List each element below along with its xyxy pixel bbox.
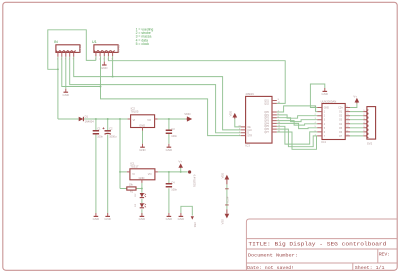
- SV2 pin stubs: [363, 112, 367, 136]
- pin numbers U1: [95, 59, 114, 61]
- label C1 value: [97, 135, 103, 139]
- svg-text:100n: 100n: [97, 135, 103, 139]
- wire lattice QP4 to I5: [277, 123, 317, 128]
- svg-text:100n: 100n: [171, 187, 177, 191]
- wire IC4 GND route: [310, 84, 324, 108]
- wire ICSP supply link: [226, 184, 228, 209]
- wire lattice QP7 under dip: [277, 132, 317, 149]
- label IC3: [245, 144, 250, 148]
- svg-text:C3: C3: [171, 127, 175, 131]
- junction C4 tap: [168, 171, 170, 173]
- ground IN pin3: [63, 89, 69, 97]
- wire C2 branch: [107, 119, 109, 213]
- junction C3 tap: [168, 118, 170, 120]
- svg-text:GND: GND: [324, 108, 329, 110]
- capacitor C2 polarized: [103, 127, 111, 134]
- svg-text:QP7: QP7: [264, 132, 269, 134]
- junction IC1 VI tap: [119, 171, 121, 173]
- wire IC2 GND pin to ground: [142, 131, 144, 144]
- regulator IC2: [128, 115, 158, 131]
- wire data-out net U1 pin4 to IC3 QS2: [108, 56, 285, 103]
- svg-text:VDD: VDD: [184, 112, 191, 116]
- svg-text:4094N: 4094N: [245, 92, 253, 96]
- pad 6.4V: [188, 170, 191, 173]
- svg-text:VDD: VDD: [220, 173, 224, 179]
- ground U1 pin3: [101, 62, 107, 70]
- capacitor C1: [93, 131, 99, 134]
- label IC1 value: [130, 165, 139, 169]
- junction strobe: [100, 86, 102, 88]
- wire IN pin3 to ground: [65, 57, 67, 89]
- label R1 value: [129, 183, 134, 186]
- svg-text:IN: IN: [54, 40, 58, 44]
- svg-text:QS2: QS2: [264, 103, 269, 105]
- svg-text:1N4004: 1N4004: [85, 119, 95, 123]
- wire data net: [70, 57, 241, 133]
- wire lattice QP5 to I6: [277, 126, 317, 144]
- label C1: [97, 127, 101, 131]
- connector SV2: [367, 107, 376, 140]
- supply VSS arrow tie: [191, 216, 194, 219]
- supply VDD arrow ICSP: [225, 176, 228, 185]
- IC4 pin names: [324, 108, 344, 138]
- ground IC2: [139, 144, 145, 152]
- svg-text:VI: VI: [132, 172, 135, 176]
- wire lattice QP2 to I3: [277, 118, 317, 122]
- svg-text:QP2: QP2: [264, 118, 269, 120]
- label IC3 part: [245, 92, 253, 96]
- svg-text:5 = clock: 5 = clock: [136, 42, 150, 46]
- sheet label: [355, 265, 385, 271]
- wire clock net: [74, 56, 241, 130]
- label D1: [85, 114, 89, 118]
- svg-text:Date: not saved!: Date: not saved!: [247, 265, 294, 271]
- junction clock U1 pin5: [112, 76, 114, 78]
- junction IC1 feed tap: [119, 118, 121, 120]
- wire voeding rail to diode and IC2: [58, 118, 128, 120]
- svg-text:QP6: QP6: [264, 129, 269, 131]
- LED D3: [140, 203, 146, 208]
- svg-text:QP5: QP5: [264, 126, 269, 128]
- svg-text:VO: VO: [148, 172, 152, 176]
- wire C1 branch: [95, 119, 97, 213]
- svg-text:TS317: TS317: [130, 165, 139, 169]
- svg-text:CD+: CD+: [338, 108, 343, 110]
- svg-text:VSS: VSS: [193, 222, 197, 227]
- wire VDD rail from IC2 VO: [158, 118, 186, 120]
- svg-text:REV:: REV:: [379, 252, 391, 258]
- svg-text:C2: C2: [109, 127, 113, 131]
- label VDD OE: [228, 111, 232, 117]
- label VSS tie: [193, 222, 197, 227]
- LED D2: [140, 193, 146, 198]
- wire GND to VSS tie: [181, 206, 192, 215]
- label 6.4V(LED): [192, 175, 196, 187]
- svg-text:D1: D1: [85, 114, 89, 118]
- svg-text:MTA05: MTA05: [117, 44, 120, 52]
- title text: [248, 240, 386, 247]
- label R1: [130, 191, 134, 194]
- ground C2: [104, 213, 110, 221]
- label IN type: [79, 44, 82, 52]
- svg-text:QP1: QP1: [264, 115, 269, 117]
- ground C3: [166, 144, 172, 152]
- svg-text:IC4: IC4: [321, 140, 326, 144]
- label C2: [109, 127, 113, 131]
- svg-text:VI: VI: [133, 118, 136, 122]
- svg-text:1000u: 1000u: [109, 135, 117, 139]
- svg-text:VDD: VDD: [228, 111, 232, 117]
- svg-text:ICSP: ICSP: [225, 196, 229, 202]
- pin ICSP marks: [225, 189, 229, 205]
- label VDD: [184, 112, 191, 116]
- supply V+ arrow at IC1: [179, 164, 182, 168]
- wire IC4 outputs to SV2: [350, 112, 363, 136]
- wire lattice QP6 to I7: [277, 129, 317, 147]
- wire R1 to ADJ junction: [136, 188, 142, 190]
- vdd arrow IC2 output: [186, 117, 192, 121]
- junction C2 tap: [107, 118, 109, 120]
- svg-text:78L05: 78L05: [131, 110, 139, 114]
- label C4 value: [171, 187, 177, 191]
- diode D1: [79, 117, 84, 121]
- svg-text:GND: GND: [139, 176, 145, 180]
- capacitor C4: [166, 184, 172, 187]
- note text pin legend: [136, 27, 154, 46]
- svg-text:GND: GND: [139, 124, 145, 128]
- label V+ SV2: [353, 94, 357, 98]
- wire IC4 COM to V+: [350, 103, 357, 107]
- label VDD ICSP: [220, 173, 224, 179]
- ground IC4: [322, 88, 328, 96]
- junction ADJ R1: [141, 188, 143, 190]
- wire IC1 VO rail: [158, 171, 188, 173]
- wire voeding net: IN pin1 to U1 pin1 loop: [48, 30, 96, 119]
- svg-text:IC3: IC3: [245, 144, 250, 148]
- svg-text:VO: VO: [147, 118, 151, 122]
- label IC2: [131, 106, 136, 110]
- label IN: [54, 40, 58, 44]
- date label: [247, 265, 294, 271]
- driver IC4: [317, 104, 350, 140]
- svg-text:6.4V(LED): 6.4V(LED): [192, 175, 196, 187]
- ground C4: [166, 213, 172, 221]
- supply V+ arrow SV2: [355, 99, 358, 104]
- wire U1 pin3 to ground: [103, 56, 105, 61]
- label IC4 part: [321, 99, 337, 103]
- label C3 value: [171, 134, 177, 138]
- connector IN: [56, 45, 80, 57]
- connector U1: [94, 45, 118, 57]
- IC3 pin names: [247, 100, 269, 137]
- svg-text:C4: C4: [171, 181, 175, 185]
- label D2: [135, 193, 137, 197]
- label C3: [171, 127, 175, 131]
- junction V+ tap: [180, 171, 182, 173]
- label C4: [171, 181, 175, 185]
- label D1 value: [85, 119, 95, 123]
- capacitor C3: [166, 130, 172, 133]
- label V+: [178, 160, 182, 164]
- svg-text:Document Number:: Document Number:: [248, 253, 298, 259]
- label IC4: [321, 140, 326, 144]
- IC3 pin numbers: [238, 99, 280, 136]
- label C2 value: [109, 135, 117, 139]
- wire lattice QP0 to I1: [277, 106, 317, 112]
- svg-text:SV2: SV2: [367, 141, 373, 145]
- svg-text:QP4: QP4: [264, 123, 269, 125]
- ground C1: [93, 213, 99, 221]
- vdd arrow IC3 OE: [233, 114, 236, 119]
- svg-text:100n: 100n: [171, 134, 177, 138]
- svg-text:U1: U1: [92, 40, 97, 44]
- shift register IC3: [241, 96, 277, 143]
- svg-text:OE: OE: [247, 127, 251, 129]
- svg-text:C1: C1: [97, 127, 101, 131]
- wire lattice QP1 to I2: [277, 115, 317, 118]
- svg-text:MTA05: MTA05: [79, 44, 82, 52]
- junction voeding corner: [57, 68, 59, 70]
- document number label: [248, 253, 298, 259]
- label VSS ICSP: [220, 219, 224, 224]
- supply VSS arrow ICSP: [225, 209, 228, 217]
- svg-text:QP3: QP3: [264, 121, 269, 123]
- ground LED chain: [139, 213, 145, 221]
- label U1 type: [117, 44, 120, 52]
- wire lattice QP3 to I4: [277, 121, 317, 126]
- ground VSS tie: [178, 213, 184, 221]
- svg-text:ULN2003AN: ULN2003AN: [321, 99, 337, 103]
- label U1: [92, 40, 97, 44]
- resistor R1: [127, 187, 136, 190]
- wire strobe net: [62, 56, 241, 135]
- svg-text:VSS: VSS: [220, 219, 224, 224]
- wire C4 branch: [168, 172, 170, 213]
- svg-text:QP0: QP0: [264, 112, 269, 114]
- label ICSP: [225, 196, 229, 202]
- wire IC1 input branch: [120, 119, 127, 189]
- label SV2: [367, 141, 373, 145]
- pin numbers IN: [57, 59, 75, 61]
- svg-text:V+: V+: [353, 94, 357, 98]
- junction C1 tap: [95, 118, 97, 120]
- title block: [246, 219, 397, 270]
- SV2 pin numbers: [363, 110, 365, 136]
- label IC2 value: [131, 110, 139, 114]
- svg-text:QS1: QS1: [264, 100, 269, 102]
- svg-text:V+: V+: [178, 160, 182, 164]
- label D3: [135, 203, 137, 207]
- svg-text:STR: STR: [247, 136, 252, 138]
- REV label: [379, 252, 391, 258]
- wire IC1 GND pin through LEDs to ground: [141, 183, 143, 216]
- junction dots: [57, 68, 182, 189]
- wire V+ branch: [180, 168, 182, 172]
- svg-text:Sheet: 1/1: Sheet: 1/1: [355, 265, 385, 271]
- IC4 pin numbers: [315, 106, 350, 136]
- svg-text:CLK: CLK: [247, 130, 252, 132]
- svg-text:TITLE: Big Display - SEG cont: TITLE: Big Display - SEG controlboard: [248, 240, 386, 247]
- wire C3 branch: [168, 119, 170, 144]
- wire VDD to IC3 OE: [235, 119, 241, 127]
- regulator IC1: [127, 169, 158, 183]
- label IC1: [130, 161, 135, 165]
